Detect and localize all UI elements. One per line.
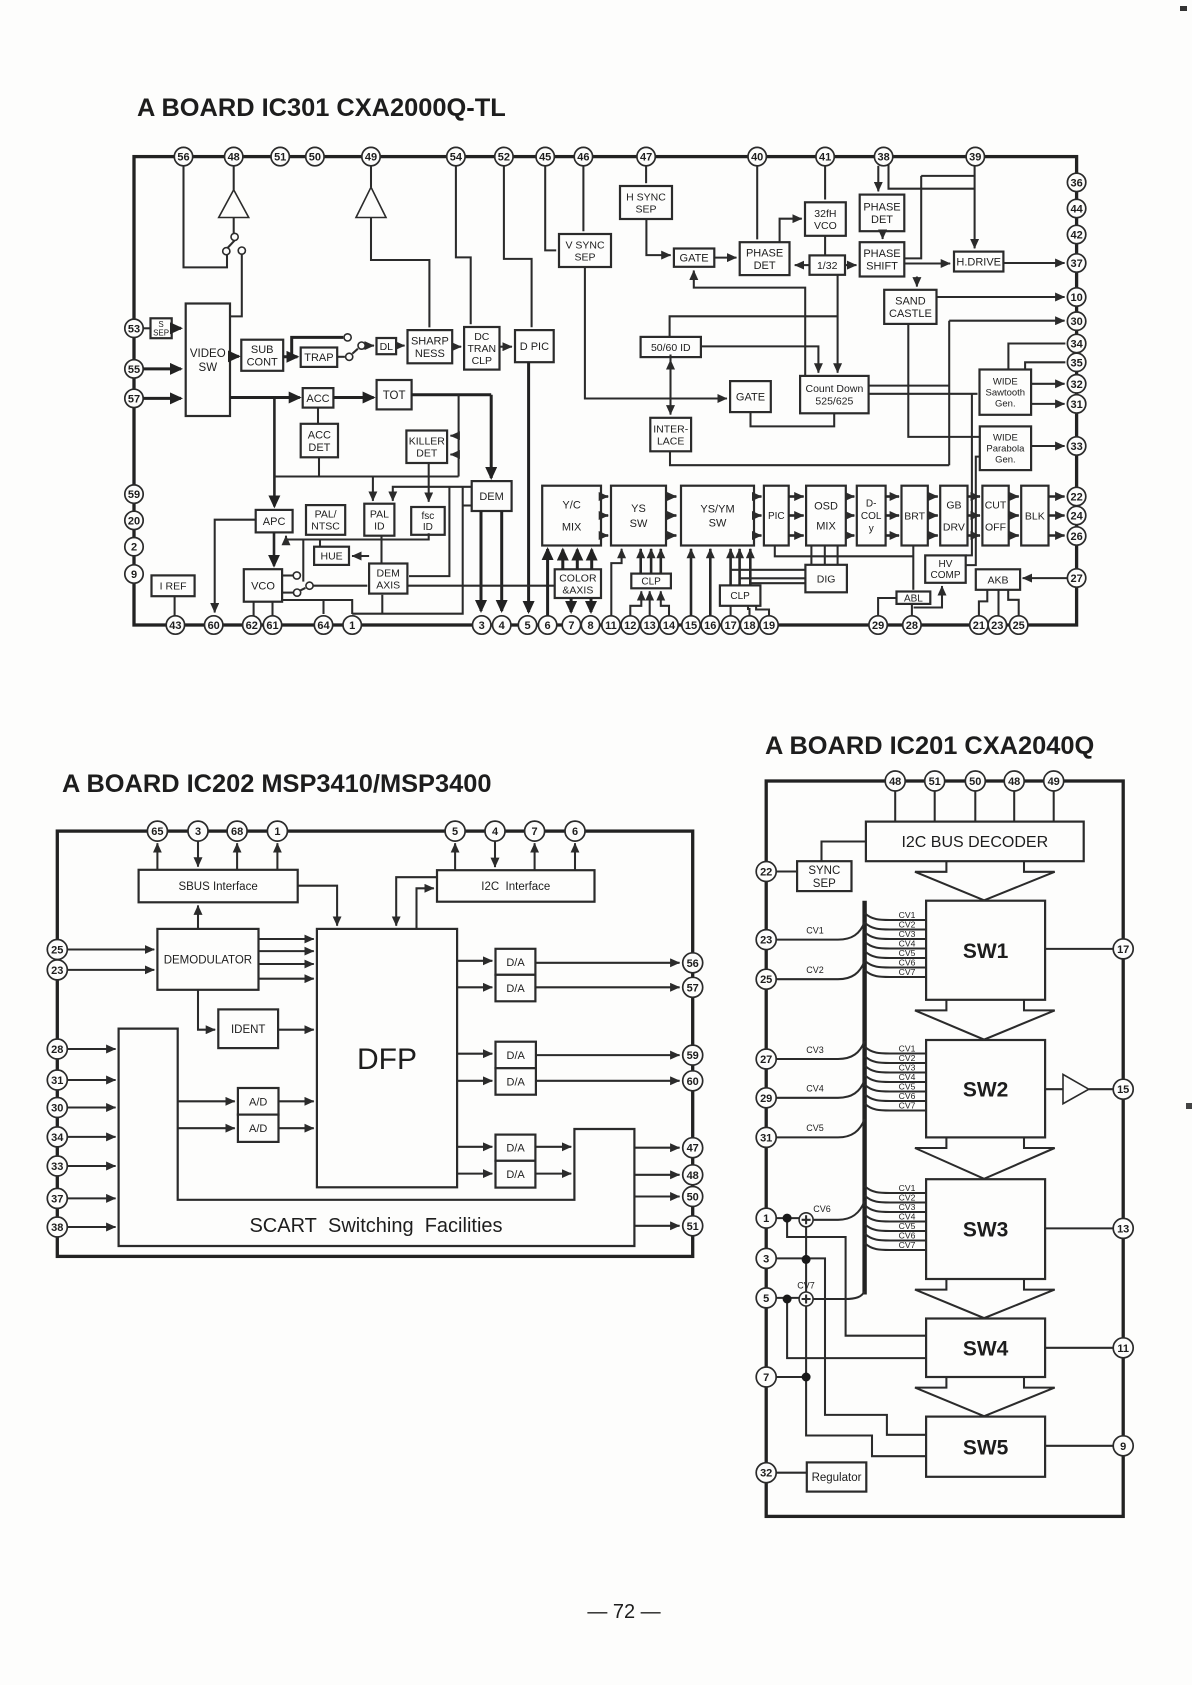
svg-text:YS: YS xyxy=(631,503,646,515)
svg-text:40: 40 xyxy=(751,152,763,164)
wire switch2 to DL xyxy=(365,345,374,347)
wire net38 to PHASE SHIFT xyxy=(904,176,921,259)
H SYNC SEP block xyxy=(620,186,672,219)
wire PHASE DET2 to PHASE SHIFT xyxy=(882,231,884,239)
wire DC TRAN to D PIC xyxy=(500,346,513,348)
pin 5 xyxy=(756,1288,776,1308)
pin 39 xyxy=(966,147,984,165)
wire pin1 to SW4 xyxy=(787,1218,926,1336)
svg-text:SHARP: SHARP xyxy=(411,335,449,347)
pin 14 xyxy=(660,616,678,634)
svg-text:CV3: CV3 xyxy=(806,1045,824,1055)
pin 44 xyxy=(1067,199,1085,217)
svg-text:48: 48 xyxy=(228,152,240,164)
svg-text:56: 56 xyxy=(177,152,189,164)
BLK block xyxy=(1021,486,1048,546)
svg-text:48: 48 xyxy=(687,1170,699,1182)
wire Y/C to YS 3 xyxy=(601,534,608,537)
pin 35 xyxy=(1067,353,1085,371)
wire pin13 to CLP1 xyxy=(649,591,651,615)
wire YS to YS/YM 2 xyxy=(666,514,676,517)
wire COLOR to pin8 xyxy=(590,598,593,612)
svg-text:1: 1 xyxy=(763,1213,769,1225)
svg-text:SHIFT: SHIFT xyxy=(866,261,898,273)
pin 62 xyxy=(243,616,261,634)
svg-text:I2C BUS DECODER: I2C BUS DECODER xyxy=(901,834,1048,851)
svg-text:28: 28 xyxy=(906,620,918,632)
wire to KILLER DET in1 xyxy=(450,435,458,437)
wire I2C to pin7 xyxy=(534,843,536,870)
wire A/D to DFP 2 xyxy=(279,1127,314,1129)
svg-text:DET: DET xyxy=(754,260,776,272)
wire DEMOD to DFP 4 xyxy=(259,978,314,980)
SW4 block xyxy=(926,1319,1045,1378)
svg-text:D PIC: D PIC xyxy=(520,341,549,353)
wire YS/YM to PIC 1 xyxy=(754,495,762,498)
DEM AXIS block xyxy=(369,564,407,594)
svg-text:CV7: CV7 xyxy=(899,967,916,977)
SW2 fan CV3 wire xyxy=(865,1066,927,1073)
wire DIG to YS/YM 2 xyxy=(740,577,806,579)
wire BRT to ABL xyxy=(912,546,914,590)
svg-text:68: 68 xyxy=(231,826,243,838)
pin 6 xyxy=(538,616,556,634)
wire D/A to pin57 xyxy=(535,986,679,988)
wire VIDEO SW to SUB CONT xyxy=(230,355,239,358)
wire ACC to TOT xyxy=(333,396,373,399)
pin 64 xyxy=(314,616,332,634)
svg-text:H.DRIVE: H.DRIVE xyxy=(956,257,1001,269)
wire DFP to D/A 6 xyxy=(457,1173,492,1175)
PHASE DET2 block xyxy=(860,195,905,232)
wire TRAP to switch xyxy=(337,356,345,358)
pin 17 xyxy=(1113,939,1133,959)
svg-text:17: 17 xyxy=(724,620,736,632)
svg-text:51: 51 xyxy=(687,1221,699,1233)
svg-text:60: 60 xyxy=(208,620,220,632)
switch1 right contact xyxy=(238,247,245,254)
wire pin22 to SYNC SEP xyxy=(776,870,797,872)
svg-text:ACC: ACC xyxy=(306,393,329,405)
svg-text:15: 15 xyxy=(685,620,697,632)
wire SAND CASTLE to Parabola xyxy=(908,324,980,437)
svg-text:65: 65 xyxy=(151,826,163,838)
svg-text:AKB: AKB xyxy=(987,574,1008,586)
svg-text:29: 29 xyxy=(760,1093,772,1105)
wire fsc to APC xyxy=(286,533,429,539)
I2C Interface block xyxy=(437,870,595,902)
wire AKB to pin21 xyxy=(979,590,987,616)
svg-text:SBUS Interface: SBUS Interface xyxy=(178,881,257,893)
svg-text:47: 47 xyxy=(640,152,652,164)
wire Y/C to YS 1 xyxy=(601,495,608,498)
junction pin1 xyxy=(783,1214,792,1223)
svg-text:Gen.: Gen. xyxy=(995,399,1016,410)
svg-text:BLK: BLK xyxy=(1025,510,1045,522)
wire to pin30 xyxy=(949,320,1064,322)
svg-text:DIG: DIG xyxy=(817,573,836,585)
svg-text:57: 57 xyxy=(128,393,140,405)
pin 11 xyxy=(1113,1338,1133,1358)
svg-text:PHASE: PHASE xyxy=(863,248,900,260)
pin 29 xyxy=(756,1088,776,1108)
wire pin34 to SCART xyxy=(68,1136,116,1138)
svg-text:1/32: 1/32 xyxy=(817,260,838,272)
wire ABL to HV COMP xyxy=(914,586,942,608)
svg-text:CV5: CV5 xyxy=(899,948,916,958)
wire V SYNC SEP to GATE2 xyxy=(585,267,727,399)
svg-text:31: 31 xyxy=(1070,399,1082,411)
svg-text:26: 26 xyxy=(1070,531,1082,543)
wire top pin x1014.2 to decoder xyxy=(1013,791,1015,822)
wire CLP1 to YS 3 xyxy=(659,549,662,574)
svg-text:Count Down: Count Down xyxy=(806,383,864,395)
wire branch to APC xyxy=(273,398,276,507)
GB DRV block xyxy=(940,486,967,546)
wire TOT net to KILLER xyxy=(458,395,460,477)
wire 50/60-INTERLACE upper arrow xyxy=(669,355,671,361)
SW3 fan CV5 wire xyxy=(865,1224,927,1231)
pin 50 xyxy=(965,771,985,791)
S SEP block xyxy=(151,318,172,338)
wire CountDown feedback to GATE1 xyxy=(694,271,805,376)
SW1 fan CV6 wire xyxy=(865,961,927,968)
svg-text:34: 34 xyxy=(51,1132,64,1144)
wire VCO to pin61 xyxy=(271,602,273,616)
pin 31 xyxy=(756,1127,776,1147)
pin 65 xyxy=(147,821,167,841)
SW2 fan CV6 wire xyxy=(865,1094,927,1101)
svg-text:PAL/: PAL/ xyxy=(315,509,337,521)
Count Down block xyxy=(800,376,869,413)
wire SAND CASTLE to pin10 xyxy=(937,296,1065,298)
GATE1 block xyxy=(674,249,714,267)
wire PHASE DET to VCO xyxy=(780,219,802,243)
wire DIG to YS/YM 3 xyxy=(750,582,805,584)
svg-text:INTER-: INTER- xyxy=(653,423,689,435)
PHASE DET block xyxy=(740,242,790,275)
pin 37 xyxy=(47,1188,67,1208)
pin 7 xyxy=(562,616,580,634)
pin 29 xyxy=(869,616,887,634)
svg-text:64: 64 xyxy=(317,620,330,632)
wire DEM AXIS bottom stub xyxy=(381,595,383,614)
pin 56 xyxy=(174,147,192,165)
wire adder CV6 to bus xyxy=(813,1201,865,1220)
SW1 fan CV1 wire xyxy=(865,913,927,920)
svg-text:50/60 ID: 50/60 ID xyxy=(651,342,691,354)
wire GB to CUT 1 xyxy=(968,495,981,498)
svg-text:13: 13 xyxy=(1117,1223,1129,1235)
svg-text:CV7: CV7 xyxy=(797,1281,815,1291)
svg-text:4: 4 xyxy=(499,620,506,632)
svg-text:DET: DET xyxy=(308,442,330,454)
switch2 bottom contact xyxy=(346,353,353,360)
SW2 fan CV4 wire xyxy=(865,1075,927,1082)
svg-text:SAND: SAND xyxy=(895,296,926,308)
APC block xyxy=(256,510,293,533)
svg-text:COMP: COMP xyxy=(931,570,961,581)
svg-text:3: 3 xyxy=(763,1253,769,1265)
svg-text:38: 38 xyxy=(51,1222,63,1234)
svg-text:PHASE: PHASE xyxy=(746,247,783,259)
svg-text:SEP: SEP xyxy=(635,203,656,215)
wire pin11 to YS SW xyxy=(611,549,621,616)
svg-text:DFP: DFP xyxy=(357,1043,417,1076)
pin 5 xyxy=(445,821,465,841)
svg-text:SUB: SUB xyxy=(251,344,274,356)
D/A 2 block xyxy=(496,975,536,1002)
wire HV COMP to Parabola xyxy=(966,457,980,565)
wire top pin x1053.7 to decoder xyxy=(1053,791,1055,822)
pin 1 xyxy=(267,821,287,841)
svg-text:ID: ID xyxy=(374,521,385,533)
svg-text:50: 50 xyxy=(969,776,981,788)
svg-text:CV6: CV6 xyxy=(899,1231,916,1241)
svg-text:LACE: LACE xyxy=(657,435,684,447)
pin 1 xyxy=(343,616,361,634)
svg-text:30: 30 xyxy=(51,1103,63,1115)
svg-text:CV1: CV1 xyxy=(899,1183,916,1193)
svg-text:32: 32 xyxy=(1070,379,1082,391)
pin 30 xyxy=(47,1098,67,1118)
wire CUT to BLK 2 xyxy=(1009,514,1019,517)
svg-text:GB: GB xyxy=(946,499,961,511)
wire DEMOD to SBUS xyxy=(197,905,199,929)
wire DFP to D/A 4 xyxy=(457,1080,492,1082)
pin 32 xyxy=(756,1463,776,1483)
svg-text:27: 27 xyxy=(1070,573,1082,585)
svg-text:KILLER: KILLER xyxy=(409,436,446,448)
svg-text:23: 23 xyxy=(51,965,63,977)
wire OSD to D-COL 3 xyxy=(846,534,855,537)
A/D 1 block xyxy=(238,1088,279,1115)
wire DEM to pin3 xyxy=(480,511,483,611)
wire OSD to DIG 2 xyxy=(824,546,826,565)
SW1 fan CV2 wire xyxy=(865,923,927,930)
junction pin5 xyxy=(783,1295,792,1304)
svg-text:1: 1 xyxy=(274,826,280,838)
wire pin30 to SCART xyxy=(68,1106,116,1108)
svg-text:CV3: CV3 xyxy=(899,1063,916,1073)
svg-text:CV2: CV2 xyxy=(899,1193,916,1203)
svg-text:IDENT: IDENT xyxy=(231,1024,266,1036)
I2C BUS DECODER block xyxy=(866,822,1084,862)
svg-text:51: 51 xyxy=(929,776,941,788)
wire pin18 to CLP2 xyxy=(748,606,750,616)
D-COL y block xyxy=(857,486,886,546)
wire CLP1 to YS 2 xyxy=(650,549,653,574)
wire DEM to pin4 xyxy=(500,511,503,611)
D/A 3 block xyxy=(496,1042,536,1069)
svg-text:CLP: CLP xyxy=(641,577,661,588)
svg-text:DEM: DEM xyxy=(377,567,400,579)
wire CountDown out1 xyxy=(869,385,950,387)
svg-text:DL: DL xyxy=(380,341,394,353)
CLP2 block xyxy=(720,585,761,605)
wire CLP2 to YS/YM 2 xyxy=(738,549,741,586)
V SYNC SEP block xyxy=(559,234,611,267)
pin 12 xyxy=(621,616,639,634)
svg-text:32fH: 32fH xyxy=(814,208,836,220)
svg-text:33: 33 xyxy=(51,1161,63,1173)
wire Sawtooth to pin32 xyxy=(1031,383,1065,385)
wire Sawtooth to pin34 xyxy=(1008,344,1065,370)
pin 21 xyxy=(970,616,988,634)
svg-text:SW3: SW3 xyxy=(963,1219,1009,1242)
IC202 outer border xyxy=(57,831,692,1256)
pin 47 xyxy=(683,1138,703,1158)
pin 9 xyxy=(125,565,143,583)
wire DIG to YS/YM 1 xyxy=(731,569,806,571)
svg-text:Regulator: Regulator xyxy=(812,1472,862,1484)
switch1 common xyxy=(231,233,238,240)
svg-text:Gen.: Gen. xyxy=(995,455,1016,466)
svg-text:DC: DC xyxy=(474,331,490,343)
wire DFP to D/A 1 xyxy=(457,960,492,962)
wire adder CV7 to bus xyxy=(813,1291,865,1299)
svg-text:17: 17 xyxy=(1117,944,1129,956)
wire BRT to GB 2 xyxy=(928,514,938,517)
pin 50 xyxy=(683,1187,703,1207)
wire 50/60-INTERLACE down arrow xyxy=(669,365,671,415)
wire I2C to pin6 xyxy=(574,843,576,870)
hollow arrow SW3 to SW4 xyxy=(915,1279,1055,1318)
pin 59 xyxy=(125,485,143,503)
amplifier SW2 out xyxy=(1063,1074,1089,1103)
wire pin6 to Y/C MIX xyxy=(546,549,549,616)
VCO switch arm xyxy=(300,588,306,591)
svg-text:13: 13 xyxy=(644,620,656,632)
wire APC to VCO xyxy=(273,532,276,565)
svg-text:43: 43 xyxy=(169,620,181,632)
wire D/A6 to SCART xyxy=(535,1173,571,1175)
wire Sawtooth to pin31 xyxy=(1031,403,1065,405)
svg-text:CUT: CUT xyxy=(985,499,1007,511)
pin 7 xyxy=(525,821,545,841)
wire to HV COMP top xyxy=(966,394,972,556)
hollow arrow SW1 to SW2 xyxy=(915,1000,1055,1040)
SW2 fan CV2 wire xyxy=(865,1056,927,1063)
svg-text:44: 44 xyxy=(1070,204,1083,216)
wire SW1 to pin17 xyxy=(1045,948,1113,950)
svg-text:28: 28 xyxy=(51,1044,63,1056)
wire pin23 to DEMOD xyxy=(68,969,155,971)
svg-text:29: 29 xyxy=(872,620,884,632)
wire SCART to A/D 1 xyxy=(178,1100,235,1102)
wire PHASE SHIFT to SAND CASTLE xyxy=(916,277,918,287)
wire SCART to pin47 xyxy=(634,1147,679,1149)
SW2 block xyxy=(926,1040,1045,1137)
pin 36 xyxy=(1067,173,1085,191)
TRAP block xyxy=(301,348,338,367)
svg-text:&AXIS: &AXIS xyxy=(562,584,593,596)
svg-text:14: 14 xyxy=(663,620,676,632)
svg-text:DRV: DRV xyxy=(943,521,965,533)
wire DFP to I2C xyxy=(417,888,434,929)
wire top pin x975.3 to decoder xyxy=(974,791,976,822)
svg-text:CV7: CV7 xyxy=(899,1240,916,1250)
svg-text:TRAP: TRAP xyxy=(304,352,333,364)
wire pin1 to adder CV6 xyxy=(776,1217,799,1219)
svg-text:OFF: OFF xyxy=(985,521,1006,533)
wire pin16 to YS/YM xyxy=(709,549,712,616)
svg-text:32: 32 xyxy=(760,1468,772,1480)
SW3 fan CV6 wire xyxy=(865,1234,927,1241)
I REF block xyxy=(152,575,195,596)
wire pin64 tap xyxy=(322,600,324,614)
wire Sawtooth to pin35 xyxy=(1025,362,1065,369)
svg-text:7: 7 xyxy=(763,1372,769,1384)
IC201 outer border xyxy=(766,781,1123,1516)
pin 57 xyxy=(125,389,143,407)
pin 40 xyxy=(748,147,766,165)
wire amp2 to SHARPNESS xyxy=(371,218,429,328)
wire DFP to D/A 3 xyxy=(457,1053,492,1055)
SW3 fan CV1 wire xyxy=(865,1186,927,1193)
32fH VCO block xyxy=(805,202,846,236)
pin 60 xyxy=(205,616,223,634)
svg-text:MIX: MIX xyxy=(816,521,836,533)
SW2 fan CV5 wire xyxy=(865,1085,927,1092)
svg-text:7: 7 xyxy=(568,620,574,632)
pin 31 xyxy=(47,1070,67,1090)
wire GB to CUT 2 xyxy=(968,514,981,517)
wire SUB CONT to TRAP xyxy=(288,355,297,358)
50/60 ID block xyxy=(641,337,701,357)
wire OSD to DIG 3 xyxy=(837,546,839,565)
WIDE Sawtooth block xyxy=(980,370,1032,415)
svg-text:ABL: ABL xyxy=(904,593,923,604)
wire IDENT to DFP xyxy=(278,1029,314,1031)
svg-text:— 72 —: — 72 — xyxy=(587,1601,660,1623)
pin 11 xyxy=(602,616,620,634)
pin 17 xyxy=(721,616,739,634)
wire YS to YS/YM 3 xyxy=(666,534,676,537)
wire pin56 to switch xyxy=(184,166,228,268)
DFP block xyxy=(317,929,457,1187)
svg-text:CV2: CV2 xyxy=(899,920,916,930)
SW1 fan CV3 wire xyxy=(865,932,927,939)
wire pin39 to H.DRIVE xyxy=(974,166,976,249)
SCART Switching Facilities block xyxy=(119,1029,635,1246)
wire HUE top stub xyxy=(319,540,321,547)
pin 25 xyxy=(47,940,67,960)
wire D-COL to BRT 2 xyxy=(886,514,900,517)
wire OSD to D-COL 1 xyxy=(846,495,855,498)
wire DEMOD to DFP 2 xyxy=(259,950,314,952)
wire SW2 to amp xyxy=(1045,1088,1063,1090)
svg-text:22: 22 xyxy=(1070,492,1082,504)
svg-text:42: 42 xyxy=(1070,230,1082,242)
pin 6 xyxy=(565,821,585,841)
svg-text:60: 60 xyxy=(687,1076,699,1088)
svg-text:D/A: D/A xyxy=(507,1076,526,1088)
svg-text:CV1: CV1 xyxy=(899,1044,916,1054)
wire pin3 to SBUS xyxy=(197,841,199,866)
wire pin38 to PHASE DET2 xyxy=(877,166,879,192)
wire D/A5 to SCART xyxy=(535,1146,571,1148)
VIDEO SW block xyxy=(186,304,230,417)
wire YS to YS/YM 1 xyxy=(666,495,676,498)
wire pin1 net xyxy=(352,586,463,614)
pin 68 xyxy=(227,821,247,841)
svg-text:50: 50 xyxy=(309,152,321,164)
wire pin54 to DC TRAN xyxy=(456,166,471,324)
pin 4 xyxy=(493,616,511,634)
wire PIC to OSD 1 xyxy=(789,495,804,498)
junction pin3 xyxy=(802,1255,811,1264)
